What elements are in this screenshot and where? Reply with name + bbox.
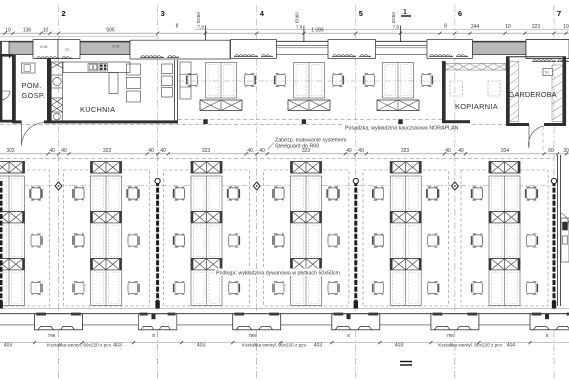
vestibule door bbox=[2, 91, 10, 100]
svg-text:7: 7 bbox=[557, 9, 561, 18]
facade outer line bbox=[0, 40, 569, 42]
grid line 5 bottom bbox=[355, 155, 357, 378]
bottom dimension line bbox=[0, 342, 569, 344]
masonry pier bbox=[80, 42, 130, 55]
svg-text:506: 506 bbox=[106, 28, 115, 34]
upper desk cluster x=221 bbox=[187, 63, 256, 111]
svg-text:7,8: 7,8 bbox=[393, 25, 400, 30]
svg-text:GARDEROBA: GARDEROBA bbox=[509, 90, 557, 99]
svg-text:403: 403 bbox=[4, 343, 13, 349]
corridor dashed edge upper bbox=[178, 119, 442, 121]
svg-text:798: 798 bbox=[446, 333, 454, 338]
svg-text:1: 1 bbox=[403, 9, 407, 16]
west exterior wall bbox=[12, 55, 16, 123]
svg-text:KUCHNIA: KUCHNIA bbox=[80, 105, 115, 114]
svg-text:404: 404 bbox=[507, 343, 516, 349]
svg-text:8: 8 bbox=[546, 333, 549, 338]
corridor dash line right bbox=[542, 126, 544, 152]
vestibule top wall bbox=[0, 54, 12, 57]
lower desk column x=405.7 bbox=[373, 162, 439, 306]
pom gosp east wall bbox=[47, 58, 51, 123]
garderoba radiator bbox=[532, 60, 556, 62]
svg-text:8: 8 bbox=[152, 333, 155, 338]
kitchen east wall bbox=[174, 60, 176, 121]
garderoba west wall bbox=[506, 57, 510, 126]
partition screen bbox=[156, 181, 159, 303]
desk row axis line bbox=[0, 185, 554, 187]
svg-text:Podłoga: wykładzina dywanowa w: Podłoga: wykładzina dywanowa w płytkach … bbox=[216, 271, 341, 277]
bottom facade wall lines bbox=[0, 313, 569, 315]
top dimension line bbox=[0, 32, 569, 34]
wall cabinet bbox=[180, 62, 191, 99]
svg-text:POM.: POM. bbox=[22, 81, 42, 90]
grid line 6 top bbox=[454, 5, 456, 155]
carpet zone dashed boundary bbox=[363, 170, 449, 306]
corridor dashed line bbox=[0, 124, 344, 126]
masonry pier bbox=[9, 42, 33, 55]
lower desk column x=504.5 bbox=[472, 162, 538, 306]
svg-text:Kształtka wentyl. 90x220 z pcv: Kształtka wentyl. 90x220 z pcv bbox=[438, 343, 502, 348]
radiator bbox=[140, 56, 164, 58]
lower desk column x=106 bbox=[73, 162, 139, 306]
grid line 7 bottom bbox=[553, 155, 555, 378]
radiator bbox=[234, 55, 258, 57]
svg-text:40: 40 bbox=[160, 148, 166, 154]
svg-text:Kształtka wentyl. 90x220 z pcv: Kształtka wentyl. 90x220 z pcv bbox=[242, 343, 306, 348]
carpet zone dashed boundary bbox=[164, 170, 250, 306]
svg-text:40: 40 bbox=[445, 148, 451, 154]
svg-text:10: 10 bbox=[563, 24, 569, 30]
garderoba south wall bbox=[506, 123, 529, 126]
wardrobe rack east bbox=[552, 65, 563, 122]
middle dimension line bbox=[0, 153, 569, 155]
masonry pier bbox=[473, 42, 527, 55]
lower office bottom line bbox=[0, 308, 569, 310]
grid line 5 top bbox=[355, 5, 357, 155]
radiator bbox=[61, 57, 73, 59]
radiator bbox=[167, 56, 179, 58]
grid line 4 bottom bbox=[256, 155, 258, 378]
lower office top dashed line bbox=[0, 158, 554, 160]
svg-text:2: 2 bbox=[62, 9, 66, 18]
vestibule west wall bbox=[0, 54, 2, 123]
svg-text:798: 798 bbox=[248, 333, 256, 338]
svg-text:7,8: 7,8 bbox=[198, 25, 205, 30]
copier 1 bbox=[450, 81, 463, 96]
svg-text:10: 10 bbox=[505, 24, 511, 30]
upper desk cluster x=398 bbox=[364, 63, 433, 111]
svg-text:223: 223 bbox=[532, 24, 541, 30]
column marker E060 bbox=[400, 26, 402, 43]
Tel box bbox=[543, 69, 553, 76]
svg-text:40: 40 bbox=[358, 148, 364, 154]
lower desk column x=206.5 bbox=[174, 162, 240, 306]
upper desk cluster x=309 bbox=[275, 63, 344, 111]
section marker 1 bottom bbox=[400, 361, 412, 363]
kopiarnia west wall bbox=[442, 61, 446, 123]
kopiarnia glazed band bbox=[446, 64, 506, 71]
bottom window module grid 256.7 bbox=[233, 313, 281, 330]
shaft column bbox=[52, 62, 63, 121]
radiator bbox=[429, 55, 453, 57]
section marker 1 top bbox=[401, 15, 411, 17]
bottom window module grid 554.0 bbox=[530, 313, 569, 330]
garderoba east wall bbox=[563, 57, 567, 126]
garderoba radiator 2 bbox=[557, 60, 569, 62]
carpet note bbox=[215, 269, 335, 277]
kitchen island bbox=[109, 73, 118, 94]
grid line 2 top bbox=[58, 5, 60, 155]
svg-text:Posadzka: wykładzina kauczukow: Posadzka: wykładzina kauczukowa NORAPLAN bbox=[345, 126, 459, 132]
svg-text:7,8: 7,8 bbox=[296, 25, 303, 30]
window bay KLIM bbox=[33, 40, 58, 59]
dimension ticks bbox=[3, 32, 567, 35]
copier 2 bbox=[488, 81, 500, 96]
svg-text:403: 403 bbox=[395, 343, 404, 349]
bottom steel columns bbox=[152, 314, 156, 319]
svg-text:10: 10 bbox=[43, 28, 49, 34]
kitchen cabinets right bbox=[162, 64, 173, 97]
svg-text:Tel: Tel bbox=[545, 71, 549, 75]
kitchen cabinets mid bbox=[127, 64, 141, 102]
svg-text:Kształtka wentyl. 90x220 z pcv: Kształtka wentyl. 90x220 z pcv bbox=[47, 343, 111, 348]
grid line 2 bottom bbox=[58, 155, 60, 378]
glazing line bbox=[376, 45, 428, 47]
bottom window module grid 355.8 bbox=[332, 313, 380, 330]
svg-text:40: 40 bbox=[49, 148, 55, 154]
south wall pom gosp bbox=[12, 120, 22, 123]
right room kitchenette bbox=[561, 218, 569, 262]
pom gosp door bbox=[22, 122, 45, 146]
radiator bbox=[36, 57, 60, 59]
svg-text:40: 40 bbox=[61, 148, 67, 154]
svg-text:GOSP.: GOSP. bbox=[22, 91, 46, 100]
carpet zone dashed boundary bbox=[264, 170, 349, 306]
window recess kitchen bbox=[130, 40, 230, 59]
partition screen bbox=[553, 181, 556, 303]
svg-text:323: 323 bbox=[302, 148, 311, 154]
svg-text:40: 40 bbox=[247, 148, 253, 154]
radiator bbox=[332, 55, 356, 57]
svg-text:40: 40 bbox=[259, 148, 265, 154]
svg-text:304: 304 bbox=[501, 148, 510, 154]
carpet zone dashed boundary bbox=[461, 170, 548, 306]
svg-text:8: 8 bbox=[347, 333, 350, 338]
svg-text:136: 136 bbox=[23, 28, 32, 34]
svg-text:E060: E060 bbox=[196, 12, 201, 23]
svg-text:8: 8 bbox=[444, 24, 447, 30]
svg-text:30: 30 bbox=[563, 148, 569, 154]
svg-text:303: 303 bbox=[6, 148, 15, 154]
svg-text:40: 40 bbox=[148, 148, 154, 154]
partition screen bbox=[354, 181, 357, 303]
grid line 3 top bbox=[157, 5, 159, 155]
kitchen top counter bbox=[63, 62, 130, 73]
grid line 7 top bbox=[553, 5, 555, 155]
kitchen stove bbox=[99, 64, 108, 72]
kopiarnia south wall bbox=[442, 120, 470, 123]
garderoba top wall bbox=[506, 56, 566, 58]
floor box diamond bbox=[253, 182, 260, 190]
wardrobe rack west bbox=[510, 62, 519, 122]
svg-text:3: 3 bbox=[161, 9, 165, 18]
svg-text:323: 323 bbox=[401, 148, 410, 154]
bottom window module grid 454.9 bbox=[431, 313, 479, 330]
floor box diamond bbox=[452, 182, 459, 190]
svg-text:403: 403 bbox=[113, 343, 122, 349]
svg-text:KLIM: KLIM bbox=[40, 45, 48, 49]
carpet zone dashed boundary bbox=[0, 170, 50, 306]
steel columns at corridor bbox=[203, 119, 207, 124]
window bay right corner bbox=[526, 40, 569, 59]
radiator bbox=[261, 55, 273, 57]
svg-text:8: 8 bbox=[176, 24, 179, 30]
svg-text:323: 323 bbox=[202, 148, 211, 154]
svg-text:6: 6 bbox=[458, 9, 462, 18]
pom gosp sink bbox=[22, 63, 36, 73]
window bay bbox=[328, 40, 376, 59]
south wall kitchen bbox=[44, 120, 178, 123]
radiator bbox=[359, 55, 371, 57]
window bay bbox=[526, 40, 569, 59]
carpet zone dashed boundary bbox=[64, 170, 150, 306]
svg-text:403: 403 bbox=[314, 343, 323, 349]
lower desk column x=9 bbox=[0, 162, 42, 306]
partition screen left edge bbox=[0, 181, 3, 303]
vestibule bottom wall bbox=[0, 120, 12, 123]
svg-text:1 086: 1 086 bbox=[311, 28, 324, 34]
grid line 4 top bbox=[256, 5, 258, 155]
glazing line bbox=[277, 45, 329, 47]
bottom window module grid 58.5 bbox=[35, 313, 83, 330]
svg-text:KOPIARNIA: KOPIARNIA bbox=[455, 102, 498, 111]
right room wall bbox=[557, 155, 559, 306]
svg-text:Steelguard do R60: Steelguard do R60 bbox=[275, 143, 319, 149]
svg-text:40: 40 bbox=[346, 148, 352, 154]
svg-text:E060: E060 bbox=[391, 12, 396, 23]
svg-text:E060: E060 bbox=[294, 12, 299, 23]
grid line 3 bottom bbox=[157, 155, 159, 378]
upper desk row axis line bbox=[178, 80, 442, 82]
grid line 6 bottom bbox=[454, 155, 456, 378]
window bay bbox=[231, 40, 277, 59]
svg-text:C9: C9 bbox=[65, 48, 69, 52]
svg-text:323: 323 bbox=[103, 148, 112, 154]
radiator bbox=[456, 55, 468, 57]
lower desk column x=306 bbox=[273, 162, 339, 306]
steel note leader bbox=[268, 143, 275, 150]
column marker E060 bbox=[205, 26, 207, 43]
svg-text:40: 40 bbox=[458, 148, 464, 154]
svg-text:403: 403 bbox=[197, 343, 206, 349]
svg-text:10: 10 bbox=[5, 28, 11, 34]
floor box diamond bbox=[55, 182, 62, 190]
bottom window module grid 157.6 bbox=[138, 313, 176, 330]
garderoba door bbox=[529, 125, 544, 148]
window bay C9 bbox=[58, 40, 80, 59]
svg-text:KLIM: KLIM bbox=[112, 45, 120, 49]
column marker E060 bbox=[303, 26, 305, 43]
facade inner line bbox=[0, 54, 472, 56]
svg-text:798: 798 bbox=[48, 333, 56, 338]
svg-text:5: 5 bbox=[359, 9, 363, 18]
window bay bbox=[427, 40, 473, 59]
svg-text:244: 244 bbox=[471, 24, 480, 30]
right room door bbox=[561, 213, 569, 226]
svg-text:60: 60 bbox=[548, 148, 554, 154]
kitchen sink bbox=[88, 64, 98, 72]
corner mullion bbox=[0, 41, 2, 58]
